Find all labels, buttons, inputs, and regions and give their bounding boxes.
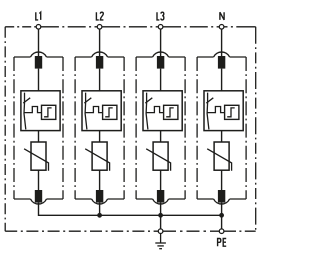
boundary right edge: [255, 27, 257, 231]
varistor R4: [214, 142, 229, 170]
wire: [221, 170, 223, 190]
varistor diagonal: [24, 149, 48, 171]
disconnector bump arc top: [214, 52, 230, 57]
boundary left edge: [4, 27, 6, 231]
terminal circle L2: [97, 25, 102, 30]
step glyph: [105, 108, 113, 117]
wire bus to PE terminal: [221, 215, 223, 229]
terminal circle L1: [36, 25, 41, 30]
varistor diagonal: [146, 149, 170, 171]
wire: [160, 170, 162, 190]
terminal L1 wire: [38, 29, 40, 56]
wire to bus: [221, 203, 223, 216]
spark gap electrode + blade: [146, 93, 148, 130]
terminal circle earth: [158, 229, 163, 234]
thermal disconnector F1 (filled): [35, 56, 42, 69]
label PE: [218, 239, 221, 247]
boundary top edge segments between terminals: [5, 26, 36, 28]
disconnector bump arc top: [31, 52, 47, 57]
wire: [221, 131, 223, 142]
ground symbol: [155, 233, 166, 248]
varistor diagonal: [207, 149, 231, 171]
labels drawn as strokes: [36, 12, 226, 246]
wire: [160, 131, 162, 142]
spark gap unit box U3: [143, 91, 182, 131]
terminal circle N: [219, 25, 224, 30]
boundary bottom edge segments: [5, 230, 158, 232]
step glyph: [227, 108, 235, 117]
spark gap unit box U2: [82, 91, 121, 131]
wire: [38, 69, 40, 91]
outer device boundary (dash-dot): [5, 27, 256, 231]
disconnector bump arc top: [153, 52, 169, 57]
wire: [38, 131, 40, 142]
thermal disconnector F2 (filled): [96, 56, 103, 69]
thermal disconnector F3 (filled): [157, 56, 164, 69]
label N: [220, 12, 224, 20]
junction dot channel 3: [158, 213, 163, 218]
terminal L3 wire: [160, 29, 162, 56]
step glyph: [44, 108, 52, 117]
disconnector bump arc bottom: [92, 199, 108, 204]
thermal disconnector lower (filled): [35, 190, 42, 203]
wire to bus: [160, 203, 162, 216]
trigger pulse line: [207, 107, 224, 113]
varistor R2: [92, 142, 107, 170]
thermal disconnector lower (filled): [157, 190, 164, 203]
wire: [221, 69, 223, 91]
protection path box 2 (dash-dot): [75, 57, 124, 199]
trigger pulse line: [24, 107, 41, 113]
thermal disconnector lower (filled): [96, 190, 103, 203]
disconnect tick: [145, 98, 152, 103]
thermal disconnector F4 (filled): [218, 56, 225, 69]
trigger unit small box: [164, 105, 178, 119]
disconnector bump arc bottom: [31, 199, 47, 204]
disconnect tick: [206, 98, 213, 103]
varistor R3: [153, 142, 168, 170]
step glyph: [166, 108, 174, 117]
terminal circle PE: [219, 229, 224, 234]
label L2: [96, 12, 98, 20]
trigger unit small box: [42, 105, 56, 119]
spark gap electrode + blade: [24, 93, 26, 130]
disconnector bump arc top: [92, 52, 108, 57]
protection path box 1 (dash-dot): [14, 57, 63, 199]
spark gap unit box U4: [204, 91, 243, 131]
PE bus wire: [39, 203, 222, 216]
label L3: [157, 12, 159, 20]
wire: [99, 170, 101, 190]
wire: [99, 131, 101, 142]
varistor R1: [31, 142, 46, 170]
disconnect tick: [23, 98, 30, 103]
terminal circle L3: [158, 25, 163, 30]
terminal N wire: [221, 29, 223, 56]
protection path box 3 (dash-dot): [136, 57, 185, 199]
wire bus to earth terminal: [160, 215, 162, 229]
trigger unit small box: [225, 105, 239, 119]
wire: [160, 69, 162, 91]
trigger pulse line: [146, 107, 163, 113]
spark gap electrode + blade: [85, 93, 87, 130]
spark gap unit box U1: [21, 91, 60, 131]
disconnector bump arc bottom: [214, 199, 230, 204]
label L1: [36, 12, 38, 20]
varistor diagonal: [85, 149, 109, 171]
wire: [38, 170, 40, 190]
trigger unit small box: [103, 105, 117, 119]
disconnector bump arc bottom: [153, 199, 169, 204]
wire to bus: [99, 203, 101, 216]
junction dot channel 4: [219, 213, 224, 218]
junction dot channel 2: [97, 213, 102, 218]
trigger pulse line: [85, 107, 102, 113]
disconnect tick: [84, 98, 91, 103]
spark gap electrode + blade: [207, 93, 209, 130]
terminal L2 wire: [99, 29, 101, 56]
thermal disconnector lower (filled): [218, 190, 225, 203]
wire: [99, 69, 101, 91]
protection path box 4 (dash-dot): [197, 57, 246, 199]
